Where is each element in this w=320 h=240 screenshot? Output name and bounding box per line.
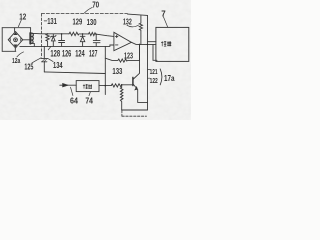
wire node X vertical [104, 46, 106, 94]
leader 12 [18, 20, 21, 27]
wire AC left vertical [1, 28, 3, 52]
wire top border solid segment [128, 14, 148, 15]
wire output column [147, 15, 149, 110]
svg-text:12: 12 [19, 12, 27, 21]
wire AC top [2, 27, 30, 29]
leader 131 [44, 20, 47, 22]
resistor 133 feedback [105, 44, 139, 62]
svg-text:12a: 12a [12, 56, 21, 65]
svg-text:74: 74 [85, 96, 93, 106]
leader 134 [48, 58, 53, 61]
leader 12a [17, 52, 24, 57]
svg-text:124: 124 [75, 49, 85, 59]
node output junction [139, 44, 141, 46]
leader 122 [147, 77, 150, 79]
svg-text:125: 125 [24, 62, 33, 71]
wire plus-input line [96, 34, 114, 36]
dashed box 70 top [41, 13, 127, 15]
svg-text:123: 123 [124, 51, 133, 60]
capacitor 134 [41, 46, 47, 72]
wire AC bottom [2, 50, 16, 52]
resistor base series [111, 84, 132, 87]
leader 125 [32, 58, 41, 63]
wire bridge to coil [23, 39, 30, 41]
node base junction [121, 84, 123, 86]
wire box64 to base [99, 85, 111, 87]
leader 74 [89, 92, 90, 96]
leader 7 [163, 17, 167, 27]
resistor 132 [139, 16, 142, 45]
svg-text:17a: 17a [164, 74, 175, 83]
svg-text:132: 132 [123, 17, 132, 27]
svg-text:127: 127 [89, 49, 97, 59]
leader 64 [71, 87, 73, 95]
wire input arrow 64 [60, 84, 76, 86]
label box7 text [161, 41, 171, 46]
wire top rail [31, 32, 69, 35]
resistor 131 [46, 33, 49, 46]
wire emitter rail [122, 109, 148, 111]
dashed 17a bottom [122, 115, 147, 117]
leader 128 [48, 47, 51, 50]
diode 124 [80, 33, 85, 46]
wire minus-input jog [105, 45, 114, 46]
op-amp 123 [114, 32, 131, 50]
resistor pulldown [120, 85, 123, 110]
dashed 17a left stub [121, 111, 123, 117]
arrowhead [63, 84, 68, 87]
dashed box 70 left [40, 14, 42, 57]
wire op-amp output [131, 42, 156, 44]
resistor 130 [89, 32, 96, 35]
bracket 17a [160, 69, 162, 85]
svg-text:128: 128 [50, 48, 60, 58]
label box64 text [83, 84, 92, 88]
wire coil bottom out [31, 43, 34, 46]
leader 132 [127, 25, 139, 27]
leader 70 [84, 7, 92, 13]
svg-text:7: 7 [161, 9, 166, 18]
svg-text:134: 134 [53, 61, 63, 70]
svg-text:131: 131 [47, 16, 57, 26]
box 7 [156, 27, 189, 61]
box 64 [76, 81, 99, 92]
svg-text:130: 130 [87, 17, 97, 27]
wire bridge top lead [14, 28, 16, 32]
leader 121 [147, 69, 150, 71]
bridge rectifier 12 [8, 32, 23, 49]
coil 12a [30, 33, 33, 44]
capacitor 126 [59, 33, 65, 46]
svg-text:64: 64 [70, 95, 78, 105]
wire bridge bottom lead [14, 48, 16, 51]
capacitor 127 [93, 33, 100, 46]
svg-text:121: 121 [150, 67, 158, 76]
node output col [147, 44, 148, 45]
svg-text:122: 122 [150, 76, 158, 85]
wire bottom rail [20, 45, 106, 47]
wire coil top feed [30, 28, 32, 33]
resistor 129 [69, 32, 89, 35]
svg-text:70: 70 [92, 0, 99, 9]
wire right drop [153, 44, 157, 60]
wire box stub [148, 41, 156, 43]
svg-text:133: 133 [112, 66, 122, 76]
svg-text:129: 129 [73, 17, 83, 27]
transistor Q [133, 44, 148, 102]
node X junction [105, 85, 107, 87]
zener diode 128 [51, 34, 56, 46]
wire cap134 bottom [44, 72, 105, 74]
svg-text:126: 126 [62, 48, 71, 58]
